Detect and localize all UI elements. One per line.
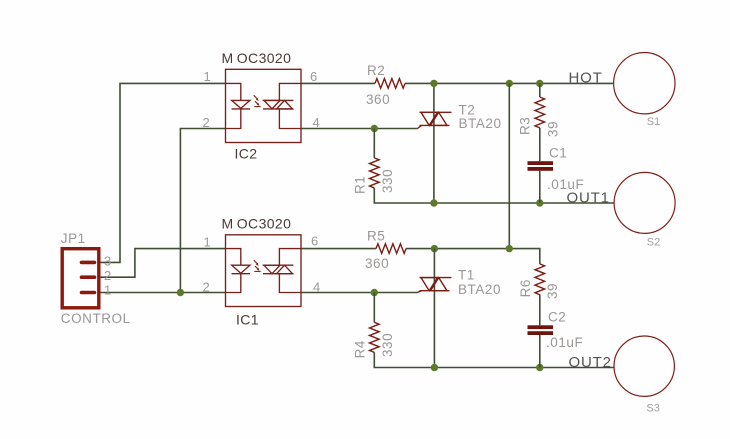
IC1 internal triac xyxy=(263,249,301,293)
JP1 pin 2 bar xyxy=(82,275,95,279)
triac T1 xyxy=(418,278,452,293)
wire R3 top segment xyxy=(539,83,541,97)
wire R6 to C2 xyxy=(539,294,541,325)
resistor R2 xyxy=(375,79,405,89)
triac T2 xyxy=(418,112,452,128)
svg-text:39: 39 xyxy=(545,283,560,299)
resistor R5 xyxy=(376,244,406,254)
wire IC1 pin4 to T1 gate xyxy=(301,292,418,294)
svg-text:C2: C2 xyxy=(548,309,566,324)
svg-text:S2: S2 xyxy=(647,236,660,248)
wire R3 to C1 xyxy=(539,128,541,161)
svg-text:1: 1 xyxy=(104,282,111,297)
node junction R3 top xyxy=(536,80,543,87)
wire T1 vertical xyxy=(433,249,435,368)
pad S3 xyxy=(614,336,674,396)
svg-text:T1: T1 xyxy=(458,267,475,282)
pad S2 xyxy=(614,172,675,233)
svg-text:HOT: HOT xyxy=(569,69,603,86)
svg-text:4: 4 xyxy=(313,115,320,130)
IC1 IR arrows xyxy=(254,260,261,271)
capacitor C2 xyxy=(528,325,554,335)
wire JP1.3 to IC2 pin1 net xyxy=(101,83,226,262)
svg-text:M OC3020: M OC3020 xyxy=(222,215,292,231)
svg-text:3: 3 xyxy=(104,254,111,269)
node junction row2 vertical xyxy=(506,245,513,252)
svg-text:330: 330 xyxy=(380,169,395,193)
node junction T2 top xyxy=(430,80,437,87)
wire R1 branch bottom xyxy=(374,188,614,203)
svg-text:BTA20: BTA20 xyxy=(459,116,502,131)
capacitor C1 xyxy=(528,161,554,171)
wire R4 branch bottom xyxy=(374,352,614,367)
wire R5 to row2 rail xyxy=(406,249,540,264)
wire JP1.2 to IC1 pin1 net xyxy=(101,249,226,278)
svg-text:6: 6 xyxy=(310,69,317,84)
svg-text:.01uF: .01uF xyxy=(546,335,583,350)
JP1 pin 3 bar xyxy=(82,261,95,265)
IC2 internal triac xyxy=(263,83,301,128)
svg-text:S3: S3 xyxy=(646,403,659,415)
svg-text:OUT2: OUT2 xyxy=(569,354,612,371)
svg-text:JP1: JP1 xyxy=(61,231,86,246)
node junction R4 top xyxy=(371,289,378,296)
svg-text:2: 2 xyxy=(104,268,111,283)
svg-text:2: 2 xyxy=(203,279,210,294)
resistor R3 xyxy=(535,97,545,128)
svg-text:2: 2 xyxy=(203,115,210,130)
resistor R4 xyxy=(369,322,379,352)
svg-text:R1: R1 xyxy=(352,176,367,194)
node junction T1 bottom xyxy=(431,364,438,371)
svg-text:S1: S1 xyxy=(647,116,660,128)
wire IC2 pin6 to R2 xyxy=(301,82,375,84)
node junction T2 bottom xyxy=(430,199,437,206)
svg-text:R4: R4 xyxy=(352,340,367,358)
wire IC2 pin2 branch xyxy=(180,129,225,293)
IC2 internal LED xyxy=(226,83,251,128)
node junction JP1.1/IC2.2 xyxy=(177,289,184,296)
resistor R6 xyxy=(535,264,545,295)
wire C2 to OUT2 xyxy=(539,335,541,368)
svg-text:C1: C1 xyxy=(549,146,567,161)
node junction HOT vertical xyxy=(506,80,513,87)
wire IC1 pin6 to R5 xyxy=(301,248,376,250)
svg-text:M OC3020: M OC3020 xyxy=(222,50,292,66)
svg-text:39: 39 xyxy=(546,121,561,137)
svg-text:360: 360 xyxy=(365,256,389,271)
wire R2 to HOT rail and S1 xyxy=(405,82,614,84)
wire C1 to OUT1 xyxy=(539,171,541,203)
svg-text:1: 1 xyxy=(204,234,211,249)
svg-text:R3: R3 xyxy=(518,117,533,135)
op-to-coupler IC2 box xyxy=(226,69,302,142)
node junction T1 top xyxy=(431,245,438,252)
svg-text:360: 360 xyxy=(366,92,390,107)
node junction R1 top xyxy=(371,125,378,132)
JP1 pin 1 bar xyxy=(82,291,95,295)
svg-text:BTA20: BTA20 xyxy=(458,282,501,297)
wire IC2 pin4 to T2 gate xyxy=(301,128,418,130)
svg-text:OUT1: OUT1 xyxy=(567,189,610,206)
wire R1 branch top xyxy=(373,129,375,158)
svg-text:4: 4 xyxy=(313,279,320,294)
svg-text:6: 6 xyxy=(311,234,318,249)
IC1 internal LED xyxy=(226,249,251,293)
op-to-coupler IC1 box xyxy=(226,235,302,307)
svg-text:R6: R6 xyxy=(518,279,533,297)
resistor R1 xyxy=(369,158,379,188)
node junction C2 bottom xyxy=(536,364,543,371)
node junction C1 bottom xyxy=(536,199,543,206)
svg-text:R5: R5 xyxy=(367,228,385,243)
wire R4 branch top xyxy=(373,293,375,323)
svg-text:R2: R2 xyxy=(367,63,385,78)
wire long vertical HOT to row2 xyxy=(508,83,510,248)
wire JP1.1 to IC1 pin2 net xyxy=(101,292,226,294)
svg-text:330: 330 xyxy=(380,333,395,357)
connector JP1 xyxy=(62,249,99,308)
svg-text:IC1: IC1 xyxy=(236,312,259,328)
wire T2 vertical HOT to OUT1 xyxy=(433,83,435,203)
svg-text:IC2: IC2 xyxy=(235,146,258,162)
IC2 IR arrows xyxy=(254,95,261,106)
pad S1 xyxy=(614,52,675,113)
svg-text:CONTROL: CONTROL xyxy=(61,311,131,326)
svg-text:1: 1 xyxy=(204,69,211,84)
